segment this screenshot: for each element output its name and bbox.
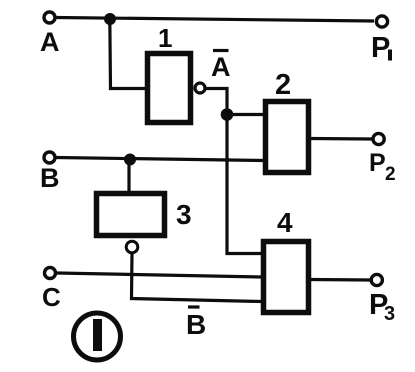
wire top A to P1	[56, 18, 374, 22]
wire from bubble right, down to gate 4	[205, 89, 262, 254]
svg-text:3: 3	[384, 303, 395, 325]
terminal A	[44, 12, 55, 23]
svg-text:2: 2	[275, 69, 291, 101]
svg-text:A: A	[40, 27, 60, 57]
inverter bubble of gate 3	[126, 241, 138, 253]
svg-text:2: 2	[385, 164, 396, 185]
svg-text:4: 4	[277, 207, 293, 238]
svg-text:A: A	[211, 52, 231, 82]
gate 2	[266, 102, 309, 173]
inverter bubble of gate 1	[195, 83, 205, 93]
label P1	[371, 32, 392, 64]
node Abar label	[211, 51, 231, 83]
wire C to gate 4 middle input	[57, 273, 262, 277]
svg-text:P: P	[371, 32, 390, 64]
wire gate 2 output to P2	[310, 137, 372, 141]
terminal P2	[373, 133, 384, 144]
svg-text:B: B	[40, 163, 60, 193]
wire junction down into gate 1	[110, 18, 147, 89]
terminal P1	[376, 16, 387, 27]
figure number circled 1	[74, 313, 121, 360]
gate 3	[97, 194, 165, 236]
junction on top wire	[105, 14, 116, 25]
junction on Abar line	[221, 109, 233, 121]
svg-text:C: C	[42, 282, 61, 312]
gate 4	[264, 242, 309, 313]
svg-text:1: 1	[158, 23, 172, 53]
svg-text:3: 3	[176, 199, 192, 230]
wire junction to gate 2 upper input	[227, 113, 264, 116]
wire from gate 3 bubble down and right to gate 4 (Bbar net)	[132, 253, 263, 302]
terminal B	[44, 152, 55, 163]
svg-text:B: B	[186, 309, 206, 340]
junction on B wire	[125, 154, 136, 165]
terminal P3	[371, 274, 382, 285]
wire B to gate 2 lower input	[56, 158, 264, 161]
label P3	[369, 289, 395, 325]
svg-text:P: P	[369, 149, 386, 177]
wire gate 4 output to P3	[310, 278, 370, 282]
wire junction down into gate 3	[127, 160, 130, 194]
gate 1	[148, 54, 191, 123]
label P2	[369, 149, 396, 185]
terminal C	[45, 268, 56, 279]
node Bbar label	[186, 307, 206, 340]
